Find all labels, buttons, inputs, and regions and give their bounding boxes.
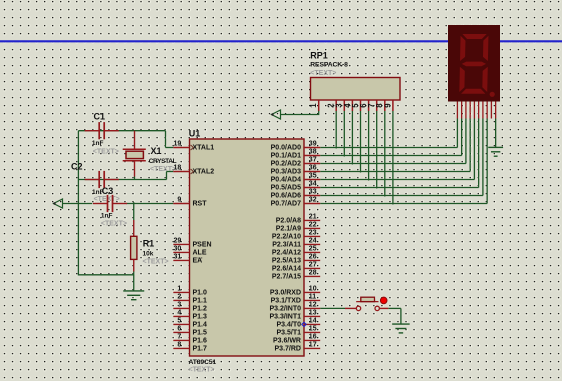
svg-text:<TEXT>: <TEXT> xyxy=(310,70,336,77)
wire R1 top to RST junction xyxy=(133,202,135,220)
svg-text:P2.3/A11: P2.3/A11 xyxy=(272,242,301,249)
U1 pin 4 P1.3 xyxy=(173,315,189,317)
svg-text:17: 17 xyxy=(309,342,317,349)
svg-text:AT89C51: AT89C51 xyxy=(189,359,217,366)
RP1 pin 1 xyxy=(318,100,320,111)
U1 pin 25 P2.4/A12 xyxy=(304,251,320,253)
svg-text:P1.0: P1.0 xyxy=(193,290,208,297)
U1 pin 21 P2.0/A8 xyxy=(304,219,320,221)
wire C2/XTAL2 net xyxy=(78,179,166,181)
wire button to ground xyxy=(388,307,401,309)
U1 pin 17 P3.7 xyxy=(304,347,320,349)
display pin 3 xyxy=(465,102,467,119)
U1 pin 1 P1.0 xyxy=(173,291,189,293)
svg-text:P3.4/T0: P3.4/T0 xyxy=(276,322,301,329)
crystal X1 xyxy=(134,131,136,150)
U1 pin 14 P3.4 xyxy=(304,323,320,325)
svg-text:P3.5/T1: P3.5/T1 xyxy=(276,330,301,337)
U1 pin 18 XTAL2 xyxy=(173,171,189,173)
RP1 pin 2 xyxy=(335,100,337,111)
svg-text:<TEXT>: <TEXT> xyxy=(93,149,119,156)
XTAL2 clock chevron xyxy=(191,169,194,174)
U1 pin 24 P2.3/A11 xyxy=(304,243,320,245)
svg-text:28: 28 xyxy=(309,270,317,277)
capacitor C1 xyxy=(85,130,100,132)
svg-text:38: 38 xyxy=(309,149,317,156)
svg-text:P2.2/A10: P2.2/A10 xyxy=(272,234,301,241)
blue bus line xyxy=(0,40,562,42)
RP1 pin 9 xyxy=(392,100,394,111)
svg-text:11: 11 xyxy=(309,294,317,301)
capacitor C3 xyxy=(93,203,108,205)
svg-text:39: 39 xyxy=(309,141,317,148)
svg-text:<TEXT>: <TEXT> xyxy=(143,259,169,266)
wire P0.2 net xyxy=(320,163,466,165)
svg-text:8: 8 xyxy=(177,341,181,348)
svg-text:1nF: 1nF xyxy=(101,212,113,219)
U1 pin 7 P1.6 xyxy=(173,339,189,341)
svg-text:31: 31 xyxy=(174,253,182,260)
svg-text:9: 9 xyxy=(177,197,181,204)
U1 pin 22 P2.1/A9 xyxy=(304,227,320,229)
wire P3.2 to button xyxy=(320,307,345,309)
segment b xyxy=(483,36,489,61)
svg-text:P0.4/AD4: P0.4/AD4 xyxy=(271,177,301,184)
RP1 pin 6 xyxy=(368,100,370,111)
svg-text:P0.7/AD7: P0.7/AD7 xyxy=(271,201,301,208)
svg-text:P3.3/INT1: P3.3/INT1 xyxy=(269,314,301,321)
ground (R1 / rail) xyxy=(123,290,144,292)
U1 pin 28 P2.7/A15 xyxy=(304,275,320,277)
U1 pin 10 P3.0 xyxy=(304,291,320,293)
svg-text:P0.2/AD2: P0.2/AD2 xyxy=(271,161,301,168)
svg-text:CRYSTAL: CRYSTAL xyxy=(149,158,177,165)
segment e xyxy=(459,67,465,92)
svg-text:9: 9 xyxy=(383,103,392,108)
RP1 pin 5 xyxy=(360,100,362,111)
svg-text:C3: C3 xyxy=(102,186,114,196)
svg-text:36: 36 xyxy=(309,165,317,172)
svg-text:P1.7: P1.7 xyxy=(193,346,208,353)
svg-text:P1.2: P1.2 xyxy=(193,306,208,313)
svg-text:X1: X1 xyxy=(151,146,162,156)
svg-text:2: 2 xyxy=(177,293,181,300)
wire left GND rail xyxy=(78,131,133,275)
resistor pack RP1 body xyxy=(311,78,401,101)
wire P0.7 net xyxy=(320,203,487,205)
RP1 pin 4 xyxy=(351,100,353,111)
U1 pin 33 P0.6/AD6 xyxy=(304,195,320,197)
U1 pin 19 XTAL1 xyxy=(173,147,189,149)
svg-text:P0.0/AD0: P0.0/AD0 xyxy=(271,145,301,152)
wire RP1 pin1 to terminal xyxy=(281,111,319,115)
display pin 1 xyxy=(456,102,458,119)
wire R1 bottom / ground drop xyxy=(133,272,135,291)
U1 pin 11 P3.1 xyxy=(304,299,320,301)
RP1 pin 8 xyxy=(384,100,386,111)
svg-text:3: 3 xyxy=(177,301,181,308)
segment d xyxy=(461,89,485,94)
svg-text:R1: R1 xyxy=(143,238,155,248)
U1 pin 30 ALE xyxy=(173,251,189,253)
svg-text:P1.6: P1.6 xyxy=(193,338,208,345)
svg-text:P1.1: P1.1 xyxy=(193,298,208,305)
svg-text:P3.7/RD: P3.7/RD xyxy=(275,346,301,353)
segment c xyxy=(482,67,488,92)
svg-text:<TEXT>: <TEXT> xyxy=(101,220,127,227)
U1 pin 32 P0.7/AD7 xyxy=(304,203,320,205)
U1 pin 29 PSEN xyxy=(173,243,189,245)
svg-text:P1.4: P1.4 xyxy=(193,322,208,329)
svg-text:35: 35 xyxy=(309,173,317,180)
svg-text:1nF: 1nF xyxy=(92,140,104,147)
svg-text:32: 32 xyxy=(309,197,317,204)
svg-text:6: 6 xyxy=(177,325,181,332)
svg-text:U1: U1 xyxy=(189,128,201,138)
svg-text:<TEXT>: <TEXT> xyxy=(150,166,176,173)
svg-text:<TEXT>: <TEXT> xyxy=(94,196,120,203)
wire P0.3 net xyxy=(320,171,470,173)
U1 pin 31 EA xyxy=(173,259,189,261)
display pin 8 xyxy=(486,102,488,119)
display pin 4 xyxy=(469,102,471,119)
wire P0.6 net xyxy=(320,195,483,197)
U1 pin 3 P1.2 xyxy=(173,307,189,309)
U1 pin 13 P3.3 xyxy=(304,315,320,317)
op chip U1 AT89C51 body xyxy=(190,139,305,356)
U1 pin 34 P0.5/AD5 xyxy=(304,187,320,189)
svg-text:PSEN: PSEN xyxy=(193,242,212,249)
U1 pin 39 P0.0/AD0 xyxy=(304,147,320,149)
svg-text:12: 12 xyxy=(309,302,317,309)
U1 pin 9 RST xyxy=(173,203,189,205)
svg-text:P0.3/AD3: P0.3/AD3 xyxy=(271,169,301,176)
svg-text:RESPACK-8: RESPACK-8 xyxy=(310,62,348,69)
svg-text:27: 27 xyxy=(309,262,317,269)
terminal arrow (RP1 pin1) xyxy=(272,110,281,119)
display pin 10 xyxy=(495,102,497,119)
RP1 pin 7 xyxy=(376,100,378,111)
svg-text:7: 7 xyxy=(177,333,181,340)
U1 pin 27 P2.6/A14 xyxy=(304,267,320,269)
svg-text:C2: C2 xyxy=(71,162,83,172)
segment g xyxy=(462,62,486,67)
U1 pin 38 P0.1/AD1 xyxy=(304,155,320,157)
svg-text:5: 5 xyxy=(177,317,181,324)
svg-text:22: 22 xyxy=(309,222,317,229)
wire RST net xyxy=(63,203,93,205)
svg-text:33: 33 xyxy=(309,189,317,196)
svg-text:XTAL1: XTAL1 xyxy=(193,145,215,152)
ground (button) xyxy=(392,323,410,325)
svg-text:15: 15 xyxy=(309,326,317,333)
wire P0.5 net xyxy=(320,187,478,189)
U1 pin 8 P1.7 xyxy=(173,347,189,349)
svg-text:34: 34 xyxy=(309,181,317,188)
svg-text:RST: RST xyxy=(193,201,208,208)
svg-text:10k: 10k xyxy=(143,251,154,258)
svg-text:10: 10 xyxy=(309,286,317,293)
svg-text:1: 1 xyxy=(309,103,318,108)
svg-text:P2.6/A14: P2.6/A14 xyxy=(272,266,301,273)
svg-text:P2.4/A12: P2.4/A12 xyxy=(272,250,301,257)
svg-text:18: 18 xyxy=(174,165,182,172)
svg-text:RP1: RP1 xyxy=(310,51,328,61)
svg-text:P2.5/A13: P2.5/A13 xyxy=(272,258,301,265)
svg-text:P2.7/A15: P2.7/A15 xyxy=(272,274,301,281)
7-segment display body xyxy=(448,25,500,102)
wire P0.0 net xyxy=(320,147,457,149)
svg-text:ALE: ALE xyxy=(193,250,207,257)
svg-text:XTAL2: XTAL2 xyxy=(193,169,215,176)
svg-text:P2.1/A9: P2.1/A9 xyxy=(276,226,301,233)
U1 pin 36 P0.3/AD3 xyxy=(304,171,320,173)
svg-text:P3.6/WR: P3.6/WR xyxy=(273,338,301,345)
svg-text:30: 30 xyxy=(174,245,182,252)
svg-text:37: 37 xyxy=(309,157,317,164)
segment dp xyxy=(490,92,495,97)
U1 pin 5 P1.4 xyxy=(173,323,189,325)
display pin 5 xyxy=(473,102,475,119)
svg-text:16: 16 xyxy=(309,334,317,341)
U1 pin 2 P1.1 xyxy=(173,299,189,301)
svg-text:P3.0/RXD: P3.0/RXD xyxy=(270,290,301,297)
capacitor C2 xyxy=(85,179,100,181)
terminal arrow (RST) xyxy=(54,199,63,208)
wire C1/XTAL1 net xyxy=(78,130,165,132)
svg-text:EA: EA xyxy=(193,258,203,265)
svg-text:P1.5: P1.5 xyxy=(193,330,208,337)
U1 pin 26 P2.5/A13 xyxy=(304,259,320,261)
svg-text:26: 26 xyxy=(309,254,317,261)
segment a xyxy=(462,34,486,39)
wire P0.4 net xyxy=(320,179,474,181)
svg-text:24: 24 xyxy=(309,238,317,245)
RP1 pin 3 xyxy=(343,100,345,111)
U1 pin 6 P1.5 xyxy=(173,331,189,333)
svg-text:P0.5/AD5: P0.5/AD5 xyxy=(271,185,301,192)
segment f xyxy=(460,36,466,61)
wire display common to ground xyxy=(495,119,497,148)
wire P0.1 net xyxy=(320,155,461,157)
svg-text:13: 13 xyxy=(309,310,317,317)
svg-text:1: 1 xyxy=(177,285,181,292)
ground (display) xyxy=(488,146,503,148)
U1 pin 37 P0.2/AD2 xyxy=(304,163,320,165)
svg-text:P0.1/AD1: P0.1/AD1 xyxy=(271,153,301,160)
XTAL1 clock chevron xyxy=(191,145,194,150)
svg-text:19: 19 xyxy=(174,141,182,148)
display pin 2 xyxy=(461,102,463,119)
svg-text:21: 21 xyxy=(309,214,317,221)
svg-text:14: 14 xyxy=(309,318,317,325)
U1 pin 35 P0.4/AD4 xyxy=(304,179,320,181)
svg-text:<TEXT>: <TEXT> xyxy=(189,367,215,374)
svg-text:25: 25 xyxy=(309,246,317,253)
svg-text:23: 23 xyxy=(309,230,317,237)
U1 pin 16 P3.6 xyxy=(304,339,320,341)
svg-text:P3.1/TXD: P3.1/TXD xyxy=(271,298,301,305)
resistor R1 xyxy=(133,220,135,236)
display pin 6 xyxy=(478,102,480,119)
svg-text:4: 4 xyxy=(177,309,181,316)
svg-text:C1: C1 xyxy=(94,112,106,122)
push button xyxy=(345,307,356,309)
svg-text:29: 29 xyxy=(174,237,182,244)
svg-text:P3.2/INT0: P3.2/INT0 xyxy=(269,306,301,313)
svg-text:P1.3: P1.3 xyxy=(193,314,208,321)
U1 pin 23 P2.2/A10 xyxy=(304,235,320,237)
U1 pin 15 P3.5 xyxy=(304,331,320,333)
svg-text:P0.6/AD6: P0.6/AD6 xyxy=(271,193,301,200)
node marker pin 14 (blue diamond) xyxy=(302,322,306,326)
display pin 9 xyxy=(490,102,492,119)
U1 pin 12 P3.2 xyxy=(304,307,320,309)
display pin 7 xyxy=(482,102,484,119)
svg-text:P2.0/A8: P2.0/A8 xyxy=(276,218,301,225)
button state indicator (red dot) xyxy=(380,297,387,304)
